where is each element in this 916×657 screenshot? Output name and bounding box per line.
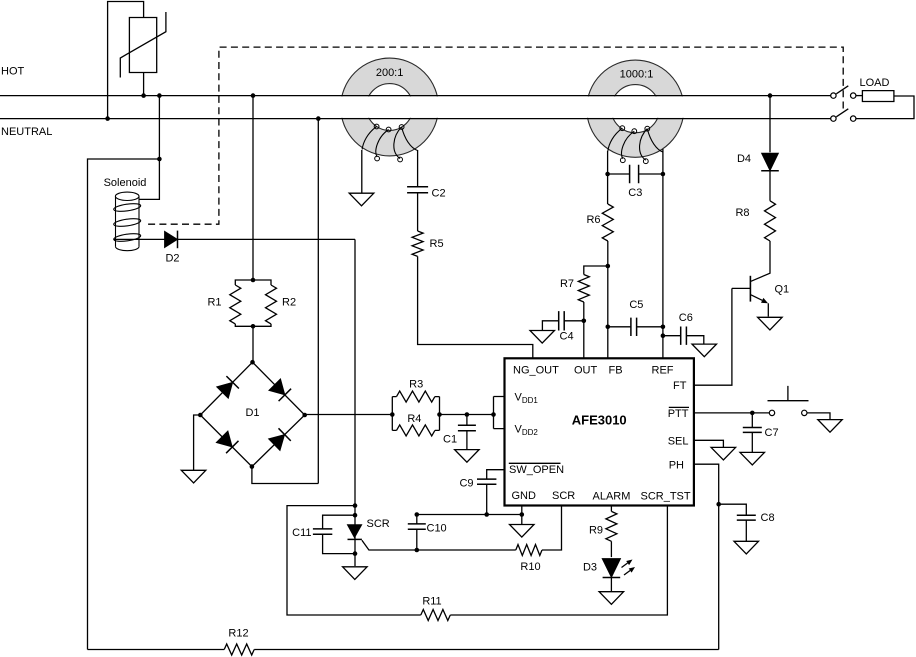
wire D4 to R8 bbox=[769, 171, 771, 201]
node R1R2 bottom bbox=[251, 324, 256, 329]
ground at SCR bbox=[343, 567, 368, 580]
resistor LOAD box bbox=[862, 91, 894, 102]
led D3 light arrows bbox=[622, 560, 636, 576]
wire Q1 base to FT pin bbox=[694, 288, 732, 385]
capacitor C10 bbox=[408, 515, 426, 551]
pin SCR_TST bbox=[641, 490, 691, 502]
wire ALARM pin down bbox=[610, 506, 612, 512]
label C7 bbox=[765, 427, 779, 439]
svg-text:R11: R11 bbox=[422, 596, 441, 608]
transistor Q1 bbox=[732, 276, 768, 317]
wire bridge bottom to neutral riser bbox=[252, 467, 318, 484]
node FB C5 junction bbox=[606, 325, 611, 330]
label LOAD bbox=[860, 77, 890, 89]
wire R9 to D3 bbox=[610, 541, 612, 557]
svg-text:Solenoid: Solenoid bbox=[104, 177, 147, 189]
capacitor C7 bbox=[743, 413, 762, 452]
pin SW_OPEN bbox=[509, 463, 564, 476]
label C6 bbox=[679, 312, 693, 324]
svg-text:D1: D1 bbox=[245, 407, 259, 419]
op-amp U1 AFE3010 body bbox=[505, 358, 694, 505]
label D2 bbox=[165, 253, 179, 265]
svg-text:C3: C3 bbox=[628, 187, 642, 199]
ground at bridge bbox=[181, 470, 206, 483]
svg-text:R1: R1 bbox=[207, 297, 221, 309]
wire varistor to HOT bbox=[143, 73, 145, 96]
wire R1R2 to bridge top bbox=[252, 326, 254, 362]
label C4 bbox=[560, 331, 574, 343]
svg-text:C10: C10 bbox=[427, 523, 447, 535]
capacitor C5 bbox=[608, 318, 663, 336]
svg-text:R8: R8 bbox=[735, 207, 749, 219]
label Q1 bbox=[775, 284, 790, 296]
svg-text:C11: C11 bbox=[292, 527, 311, 539]
wire T1 winding to ground bbox=[361, 150, 363, 193]
wire T2 left winding down bbox=[607, 151, 609, 204]
wire bridge left to ground bbox=[194, 415, 201, 470]
wire SW_OPEN to C9 bbox=[487, 470, 505, 479]
resistor R8 bbox=[765, 201, 776, 241]
wire HOT rail bbox=[0, 95, 831, 97]
led D3 bbox=[602, 559, 621, 578]
label C8 bbox=[761, 512, 775, 524]
wire HOT down to R1R2 top bbox=[252, 96, 254, 280]
label Solenoid bbox=[104, 177, 147, 189]
node REF C6 junction bbox=[661, 333, 666, 338]
node OUT C4 R7 bbox=[582, 319, 587, 324]
dashed mechanical link solenoid to breaker bbox=[148, 47, 843, 224]
wire gate line bbox=[362, 540, 516, 550]
wire LOAD return loop bbox=[856, 96, 914, 119]
node R3R4 left bbox=[390, 412, 395, 417]
wire HOT to solenoid node bbox=[158, 96, 160, 159]
wire VDD1 VDD2 bracket bbox=[494, 397, 505, 429]
node C3 right bbox=[661, 172, 666, 177]
thyristor SCR bbox=[347, 525, 362, 540]
pin REF bbox=[652, 364, 674, 376]
svg-text:SCR_TST: SCR_TST bbox=[641, 490, 691, 502]
node PH C8 junction bbox=[716, 502, 721, 507]
ground at pushbutton bbox=[818, 420, 842, 433]
junction on HOT at D4 bbox=[768, 93, 773, 98]
node VDD bracket bbox=[491, 412, 496, 417]
node C3 left bbox=[605, 172, 610, 177]
label 1000:1 bbox=[620, 69, 654, 81]
svg-text:FB: FB bbox=[609, 364, 623, 376]
svg-text:C5: C5 bbox=[629, 299, 643, 311]
label C10 bbox=[427, 523, 447, 535]
wire R1 branch frame bbox=[235, 280, 253, 326]
bridge diode D1d (bottom-right) bbox=[269, 428, 291, 450]
ground at D3 bbox=[599, 592, 624, 605]
pin GND bbox=[512, 490, 537, 502]
label NEUTRAL bbox=[1, 126, 52, 138]
capacitor C3 bbox=[608, 165, 663, 183]
wire left branch down to R12 rail bbox=[88, 159, 160, 650]
svg-text:R6: R6 bbox=[586, 214, 600, 226]
ground at C4 bbox=[530, 331, 555, 344]
node REF C5 junction bbox=[661, 325, 666, 330]
svg-text:Q1: Q1 bbox=[775, 284, 790, 296]
breaker switch HOT bbox=[831, 86, 856, 99]
label C11 bbox=[292, 527, 311, 539]
diode D2 bbox=[165, 231, 178, 249]
pin OUT bbox=[574, 364, 598, 376]
wire R7 frame bbox=[584, 266, 608, 321]
svg-text:FT: FT bbox=[673, 380, 687, 392]
pin ALARM bbox=[593, 490, 631, 502]
resistor R6 bbox=[602, 204, 613, 241]
svg-text:D4: D4 bbox=[737, 153, 751, 165]
junction on HOT at R1R2 bbox=[251, 93, 256, 98]
wire C2 to T1 winding bbox=[417, 150, 419, 187]
label R5 bbox=[430, 238, 444, 250]
label R6 bbox=[586, 214, 600, 226]
svg-text:NEUTRAL: NEUTRAL bbox=[1, 126, 52, 138]
bridge D1 diamond frame bbox=[200, 362, 304, 466]
capacitor C11 bbox=[313, 515, 355, 553]
label R11 bbox=[422, 596, 441, 608]
ground at C8 bbox=[734, 541, 759, 554]
svg-text:1000:1: 1000:1 bbox=[620, 69, 654, 81]
wire OUT to node bbox=[583, 321, 585, 359]
junction on HOT at varistor bbox=[141, 93, 146, 98]
wire R5 to C2 bbox=[417, 193, 419, 231]
wire switch to LOAD bbox=[856, 95, 863, 97]
svg-text:NG_OUT: NG_OUT bbox=[513, 364, 559, 376]
wire R8 to Q1 collector bbox=[751, 241, 770, 281]
node C10 top bbox=[415, 512, 420, 517]
svg-text:SW_OPEN: SW_OPEN bbox=[509, 464, 564, 476]
pin VDD2 bbox=[515, 424, 539, 438]
wire R6 to FB pin bbox=[607, 241, 609, 358]
node bridge bottom bbox=[250, 464, 255, 469]
svg-text:C9: C9 bbox=[459, 478, 473, 490]
node R6 R7 junction bbox=[606, 264, 611, 269]
ground at C1 bbox=[455, 450, 480, 463]
resistor R12 bbox=[224, 644, 254, 655]
node PTT C7 junction bbox=[750, 411, 755, 416]
pin FT bbox=[673, 380, 687, 392]
svg-text:REF: REF bbox=[652, 364, 674, 376]
solenoid L1 bbox=[113, 192, 141, 251]
node C9 bottom bbox=[484, 512, 489, 517]
label C1 bbox=[443, 433, 457, 445]
ground at C6 bbox=[692, 344, 717, 357]
bridge diode D1a (left-top) bbox=[217, 376, 239, 398]
junction on NEUTRAL at bridge feed bbox=[316, 116, 321, 121]
svg-text:AFE3010: AFE3010 bbox=[572, 413, 627, 428]
pushbutton SW1 bbox=[768, 386, 809, 416]
resistor R1 bbox=[230, 285, 241, 324]
wire NG_OUT to R5 bbox=[418, 256, 533, 358]
label R1 bbox=[207, 297, 221, 309]
wire neutral feed riser bbox=[317, 119, 319, 484]
wire SCR_TST down to R11 rail bbox=[450, 506, 667, 616]
svg-text:LOAD: LOAD bbox=[860, 77, 890, 89]
node SCR R11 junction bbox=[353, 503, 358, 508]
resistor R3 bbox=[397, 391, 435, 402]
svg-text:SCR: SCR bbox=[552, 490, 575, 502]
label D4 bbox=[737, 153, 751, 165]
wire PTT pin to switch bbox=[694, 412, 769, 414]
resistor R2 bbox=[266, 285, 277, 324]
wire SEL pin to ground bbox=[694, 440, 724, 447]
wire R2 branch frame bbox=[253, 280, 271, 326]
capacitor C1 bbox=[458, 415, 476, 450]
wire R3R4 frame bbox=[392, 397, 439, 431]
wire R12 rail bbox=[88, 649, 719, 651]
wire R11 rail to SCR node bbox=[287, 506, 421, 615]
capacitor C6 bbox=[663, 327, 704, 345]
junction on NEUTRAL at varistor bbox=[105, 116, 110, 121]
resistor R10 bbox=[516, 545, 542, 556]
wire solenoid to D2 and SCR line corner bbox=[114, 238, 355, 240]
svg-text:ALARM: ALARM bbox=[593, 490, 631, 502]
svg-text:200:1: 200:1 bbox=[376, 67, 404, 79]
svg-text:R4: R4 bbox=[407, 413, 421, 425]
node bridge top bbox=[250, 360, 255, 365]
diode D4 bbox=[761, 153, 779, 171]
transformer T2 1000:1 sense toroid bbox=[585, 60, 685, 164]
wire PH pin down to R12 rail bbox=[694, 464, 719, 649]
svg-text:R2: R2 bbox=[282, 297, 296, 309]
svg-text:SEL: SEL bbox=[668, 435, 689, 447]
resistor R11 bbox=[421, 610, 451, 621]
wire T2 right winding to REF pin bbox=[662, 149, 664, 358]
label R7 bbox=[560, 278, 574, 290]
svg-text:D2: D2 bbox=[165, 253, 179, 265]
node R1R2 top bbox=[251, 278, 256, 283]
label 200:1 bbox=[376, 67, 404, 79]
wire SCR anode line bbox=[354, 239, 356, 566]
node R3R4 right bbox=[437, 412, 442, 417]
svg-text:OUT: OUT bbox=[574, 364, 598, 376]
pin SEL bbox=[668, 435, 689, 447]
node SCR cathode junction bbox=[353, 551, 358, 556]
label D3 bbox=[583, 562, 597, 574]
node solenoid top junction bbox=[157, 157, 162, 162]
capacitor C2 bbox=[407, 187, 428, 193]
label HOT bbox=[1, 66, 25, 78]
pin VDD1 bbox=[515, 392, 539, 406]
resistor R9 bbox=[606, 511, 617, 541]
svg-text:C7: C7 bbox=[765, 427, 779, 439]
bridge diode D1c (left-bottom) bbox=[216, 431, 238, 453]
label D1 bbox=[245, 407, 259, 419]
varistor RV1 body bbox=[120, 12, 166, 78]
transformer T1 200:1 sense toroid bbox=[339, 58, 440, 162]
label R9 bbox=[589, 525, 603, 537]
label AFE3010 bbox=[572, 413, 627, 428]
resistor R5 bbox=[412, 231, 423, 256]
label C5 bbox=[629, 299, 643, 311]
wire SCR pin down and left bbox=[542, 506, 562, 551]
svg-text:R12: R12 bbox=[228, 628, 248, 640]
label R8 bbox=[735, 207, 749, 219]
wire R3R4 to VDD bracket bbox=[440, 414, 494, 416]
wire bridge right to R3R4 bbox=[305, 414, 393, 416]
label R10 bbox=[520, 561, 540, 573]
wire GND horizontal bbox=[417, 515, 522, 525]
resistor R4 bbox=[397, 425, 435, 436]
junction on HOT solenoid tap bbox=[157, 93, 162, 98]
svg-text:GND: GND bbox=[512, 490, 537, 502]
label R12 bbox=[228, 628, 248, 640]
node bridge right bbox=[302, 413, 307, 418]
label C3 bbox=[628, 187, 642, 199]
breaker switch NEUTRAL bbox=[831, 109, 856, 122]
label C9 bbox=[459, 478, 473, 490]
svg-text:PTT: PTT bbox=[668, 408, 689, 420]
svg-text:R10: R10 bbox=[520, 561, 540, 573]
label R3 bbox=[409, 378, 423, 390]
bridge diode D1b (top-right) bbox=[269, 379, 291, 401]
wire node to solenoid top bbox=[139, 159, 159, 199]
pin PTT bbox=[668, 407, 689, 420]
svg-text:R7: R7 bbox=[560, 278, 574, 290]
capacitor C8 bbox=[719, 504, 756, 541]
ground at SEL bbox=[711, 447, 736, 460]
wire D3 to ground bbox=[610, 578, 612, 592]
label R2 bbox=[282, 297, 296, 309]
ground at Q1 emitter bbox=[758, 317, 783, 330]
svg-text:SCR: SCR bbox=[367, 518, 390, 530]
pin SCR bbox=[552, 490, 575, 502]
resistor R7 bbox=[578, 275, 589, 303]
pin PH bbox=[669, 459, 684, 471]
pin NG_OUT bbox=[513, 364, 559, 376]
ground at GND pin bbox=[510, 525, 535, 538]
svg-text:R9: R9 bbox=[589, 525, 603, 537]
label R4 bbox=[407, 413, 421, 425]
wire GND pin down bbox=[521, 506, 523, 515]
svg-text:C4: C4 bbox=[560, 331, 574, 343]
node C10 bottom gate bbox=[415, 548, 420, 553]
svg-text:C6: C6 bbox=[679, 312, 693, 324]
label SCR bbox=[367, 518, 390, 530]
label C2 bbox=[432, 187, 446, 199]
capacitor C9 bbox=[477, 479, 496, 514]
svg-text:PH: PH bbox=[669, 459, 684, 471]
svg-text:C1: C1 bbox=[443, 433, 457, 445]
node bridge left bbox=[198, 413, 203, 418]
pin FB bbox=[609, 364, 623, 376]
node C11 top junction bbox=[353, 513, 358, 518]
wire HOT to D4 bbox=[769, 96, 771, 153]
wire varistor to NEUTRAL bbox=[108, 2, 144, 119]
node C1 tap bbox=[465, 412, 470, 417]
svg-text:R5: R5 bbox=[430, 238, 444, 250]
svg-text:C2: C2 bbox=[432, 187, 446, 199]
svg-text:HOT: HOT bbox=[1, 66, 25, 78]
svg-text:D3: D3 bbox=[583, 562, 597, 574]
wire switch to ground bbox=[807, 413, 830, 420]
svg-text:C8: C8 bbox=[761, 512, 775, 524]
node GND junction bbox=[520, 512, 525, 517]
capacitor C4 bbox=[542, 311, 583, 330]
svg-text:R3: R3 bbox=[409, 378, 423, 390]
ground at T1 bbox=[349, 193, 374, 206]
wire NEUTRAL rail bbox=[0, 118, 831, 120]
ground at C7 bbox=[740, 452, 765, 465]
